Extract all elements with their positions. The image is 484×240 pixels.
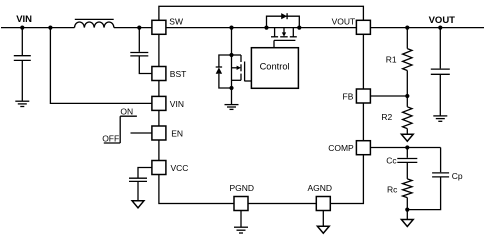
pin box BST [152, 67, 166, 81]
svg-text:VIN: VIN [16, 14, 32, 25]
node: input capacitor junction [20, 26, 24, 30]
svg-text:VCC: VCC [171, 163, 189, 173]
svg-text:Cp: Cp [452, 171, 463, 181]
node: output capacitor junction [438, 26, 442, 30]
wire: VIN input bus [1, 27, 75, 29]
wire: low-side drain rail down to ground [231, 28, 233, 105]
svg-text:Rc: Rc [387, 184, 398, 194]
inductor L1 [75, 19, 114, 27]
IC body outline [159, 6, 364, 203]
ground (earth) below COUT [433, 116, 447, 121]
transistor Q1 high-side NFET [271, 28, 297, 48]
wire: COMP pin to compensation network [370, 147, 440, 149]
resistor Rc [403, 179, 412, 219]
node: COMP node [405, 145, 409, 149]
wire: PGND to ground [240, 211, 242, 228]
node: VIN pin branch [48, 26, 52, 30]
node: bootstrap capacitor junction [137, 26, 141, 30]
node: compensation ground node [405, 208, 409, 212]
capacitor CIN [14, 28, 31, 101]
node: FB node [405, 94, 409, 98]
diode D1 body diode low-side [216, 55, 232, 88]
wire: AGND to ground [322, 211, 324, 227]
ground (signal) AGND [317, 226, 329, 233]
pin box VIN [152, 96, 166, 110]
node: low-side drain / diode cathode [229, 53, 233, 57]
diode D2 body diode high-side [267, 13, 300, 28]
svg-text:COMP: COMP [328, 143, 354, 153]
svg-text:AGND: AGND [308, 183, 333, 193]
resistor R1 [403, 28, 412, 96]
node A: switch node junction [229, 26, 233, 30]
ground (signal) below R2 [401, 134, 413, 141]
capacitor Cp [407, 148, 449, 210]
svg-text:VIN: VIN [170, 99, 184, 109]
pin box AGND [316, 197, 330, 211]
control block U1 [251, 48, 298, 89]
ground (earth) below CIN [15, 101, 29, 106]
svg-text:Control: Control [260, 62, 290, 72]
wire: inductor to SW pin [114, 27, 152, 29]
svg-text:VOUT: VOUT [332, 17, 356, 27]
pin box VCC [152, 161, 166, 175]
wire: VIN branch down to VIN pin [50, 28, 151, 104]
resistor R2 [403, 96, 412, 134]
svg-text:BST: BST [170, 69, 187, 79]
switch: OFF position contact [102, 134, 120, 144]
wire: internal SW to VOUT rail [166, 27, 357, 29]
pin box SW [152, 20, 166, 34]
svg-text:PGND: PGND [230, 183, 255, 193]
pin box FB [356, 89, 370, 103]
ground (signal) below CVCC [132, 201, 144, 208]
node: feedback divider top [405, 26, 409, 30]
node: high-side diode branch left [264, 26, 268, 30]
ground (earth) low-side source [225, 105, 239, 110]
svg-text:R2: R2 [381, 112, 392, 122]
svg-text:SW: SW [169, 17, 183, 27]
pin box EN [152, 126, 166, 140]
svg-text:ON: ON [120, 107, 133, 117]
pin box VOUT [356, 20, 370, 34]
svg-text:Cc: Cc [386, 156, 397, 166]
capacitor COUT [431, 28, 450, 116]
capacitor CBST [130, 28, 152, 74]
switch: ON position contact [120, 107, 137, 143]
svg-text:R1: R1 [386, 54, 397, 64]
pin box COMP [356, 141, 370, 155]
svg-text:FB: FB [343, 91, 354, 101]
wire: FB pin to divider [370, 95, 407, 97]
ground (signal) below Rc [401, 220, 413, 227]
svg-text:OFF: OFF [102, 134, 119, 144]
ground (earth) PGND [234, 227, 248, 233]
wire: EN pin stub [131, 132, 152, 134]
svg-text:EN: EN [171, 129, 183, 139]
svg-text:VOUT: VOUT [429, 15, 456, 26]
capacitor Cc [397, 148, 417, 179]
wire: VOUT rail to output [370, 27, 484, 29]
pin box PGND [234, 197, 248, 211]
node: low-side source / diode anode [229, 86, 233, 90]
transistor Q2 low-side NFET [232, 55, 252, 81]
capacitor CVCC [129, 168, 152, 201]
node: high-side diode branch right [297, 26, 301, 30]
